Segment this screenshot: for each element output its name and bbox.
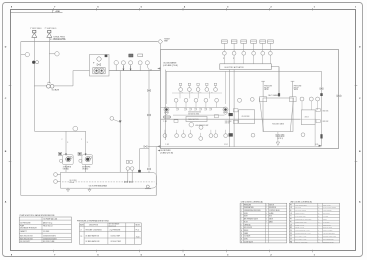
svg-text:RELIEF: RELIEF (294, 87, 299, 89)
svg-text:ELECTRIC LEVEL: ELECTRIC LEVEL (323, 241, 334, 243)
svg-text:OIL PUMP MOTOR: OIL PUMP MOTOR (295, 210, 306, 212)
svg-text:SIGHT: SIGHT (244, 216, 248, 218)
svg-text:PUMP: PUMP (20, 226, 24, 228)
svg-text:1: 1 (223, 58, 224, 60)
svg-text:1 1/2: 1 1/2 (164, 121, 168, 123)
svg-text:LEVEL: LEVEL (244, 238, 248, 240)
svg-text:H: H (318, 224, 319, 226)
svg-text:(deg & base): (deg & base) (109, 225, 117, 227)
svg-text:LEVEL: LEVEL (244, 213, 248, 215)
svg-text:2 kg/f PRESSURE: 2 kg/f PRESSURE (110, 229, 121, 231)
svg-text:XXX XXXX: XXX XXXX (225, 121, 232, 123)
svg-text:1 1/2: 1 1/2 (224, 144, 228, 146)
svg-text:OIL FILTER: OIL FILTER (69, 180, 76, 182)
svg-text:TP-10: TP-10 (136, 229, 140, 231)
svg-text:OIL PRESSURE: OIL PRESSURE (20, 222, 31, 224)
svg-text:FUEL MOTOR: FUEL MOTOR (188, 119, 199, 121)
svg-text:X DEG/C TEMP: X DEG/C TEMP (111, 235, 121, 237)
svg-text:G: G (318, 221, 319, 223)
svg-text:XXX XX: XXX XX (225, 123, 230, 125)
svg-text:XX PUMP B: XX PUMP B (82, 166, 90, 168)
svg-text:PT: PT (290, 204, 292, 206)
svg-text:LT: LT (80, 229, 82, 231)
svg-text:XXKW/XXXXV/XXHZ: XXKW/XXXXV/XXHZ (43, 238, 57, 240)
svg-text:FV: FV (290, 230, 292, 232)
svg-text:LS: LS (290, 213, 292, 215)
svg-text:VENT: VENT (164, 40, 168, 42)
svg-text:M: M (318, 238, 319, 240)
svg-text:XXX X: XXX X (305, 117, 309, 119)
svg-text:TS-10: TS-10 (136, 237, 140, 239)
svg-text:SOLID FLOW: SOLID FLOW (244, 227, 253, 229)
svg-text:XX DEG/C TEMP: XX DEG/C TEMP (111, 241, 121, 243)
svg-text:3V: 3V (290, 238, 292, 240)
svg-text:(LIFT AND QTG M): (LIFT AND QTG M) (163, 64, 178, 67)
svg-text:PUMP & MOTOR & VALVE SPECIFICA: PUMP & MOTOR & VALVE SPECIFICATIONS (20, 214, 56, 217)
svg-text:RV: RV (290, 227, 292, 229)
svg-text:LS: LS (290, 207, 292, 209)
svg-text:NO mm: NO mm (69, 182, 75, 184)
svg-text:PRESSURE: PRESSURE (244, 204, 251, 206)
svg-text:OIL FILTER: OIL FILTER (242, 116, 251, 118)
svg-text:PRESSURE: PRESSURE (294, 86, 302, 88)
svg-text:3V: 3V (290, 236, 292, 238)
svg-text:OIL PUMP: OIL PUMP (295, 207, 301, 209)
svg-text:(2″ AND QTG M): (2″ AND QTG M) (160, 151, 173, 154)
svg-text:PV: PV (290, 233, 292, 235)
svg-text:NOS: NOS (269, 216, 272, 218)
svg-text:ON SKID: ON SKID (82, 168, 89, 170)
svg-text:ELECTRIC MOTOR: ELECTRIC MOTOR (20, 238, 33, 240)
svg-text:TS: TS (80, 236, 82, 238)
svg-text:PRESSURE & TEMPERATURE SETTING: PRESSURE & TEMPERATURE SETTING (77, 220, 109, 223)
svg-text:C: C (318, 210, 319, 212)
svg-text:NO XXXX / LUBE: NO XXXX / LUBE (43, 241, 54, 243)
svg-text:3: 3 (67, 142, 68, 144)
svg-text:ON SKID: ON SKID (63, 168, 70, 170)
svg-text:M: M (290, 210, 291, 212)
svg-text:3: 3 (87, 142, 88, 144)
svg-text:FLOW METER: FLOW METER (323, 210, 331, 212)
svg-text:PT: PT (290, 219, 292, 221)
svg-text:ROOT FLOW: ROOT FLOW (323, 224, 331, 226)
svg-text:2 HIGH FLOW METER: 2 HIGH FLOW METER (323, 207, 336, 209)
svg-text:1: 1 (233, 58, 234, 60)
svg-text:COCK: COCK (323, 219, 327, 221)
svg-text:ELECTRIC ACTUATOR: ELECTRIC ACTUATOR (225, 66, 245, 69)
svg-text:LEVEL SWITCH: LEVEL SWITCH (295, 213, 304, 215)
svg-text:1 1/2: 1 1/2 (166, 144, 170, 146)
svg-text:XXKW/XXXV/XXHZ: XXKW/XXXV/XXHZ (43, 236, 56, 238)
svg-text:XXX XXX: XXX XXX (323, 110, 329, 112)
svg-text:2″ VENT FIELD: 2″ VENT FIELD (45, 28, 58, 30)
svg-text:PRESSURE: PRESSURE (264, 86, 272, 88)
svg-text:OIL VISCOSITY: OIL VISCOSITY (20, 241, 30, 243)
svg-text:CV: CV (290, 224, 292, 226)
svg-text:XXX XXX: XXX XXX (323, 121, 329, 123)
svg-text:XXX XXXX XXX XXX: XXX XXXX XXX XXX (188, 112, 201, 114)
svg-text:SWITCH: SWITCH (269, 204, 274, 206)
svg-text:PRESS: PRESS (244, 230, 249, 232)
svg-text:OIL PIPING: OIL PIPING (323, 213, 330, 215)
svg-text:X XX: X XX (315, 144, 318, 146)
svg-text:N: N (318, 241, 319, 243)
svg-text:FULL INSTRUMENT: FULL INSTRUMENT (295, 204, 307, 206)
svg-text:ELECTRIC MOTOR: ELECTRIC MOTOR (20, 236, 33, 238)
svg-text:2″ VENT FIELD: 2″ VENT FIELD (30, 28, 43, 30)
svg-text:XX L/MIN: XX L/MIN (43, 231, 49, 233)
svg-text:DESCRIPTION: DESCRIPTION (89, 225, 98, 227)
svg-text:RELIEF: RELIEF (264, 87, 269, 89)
svg-text:FIELD XX/cm2: FIELD XX/cm2 (43, 226, 53, 228)
svg-text:D: D (318, 213, 319, 215)
